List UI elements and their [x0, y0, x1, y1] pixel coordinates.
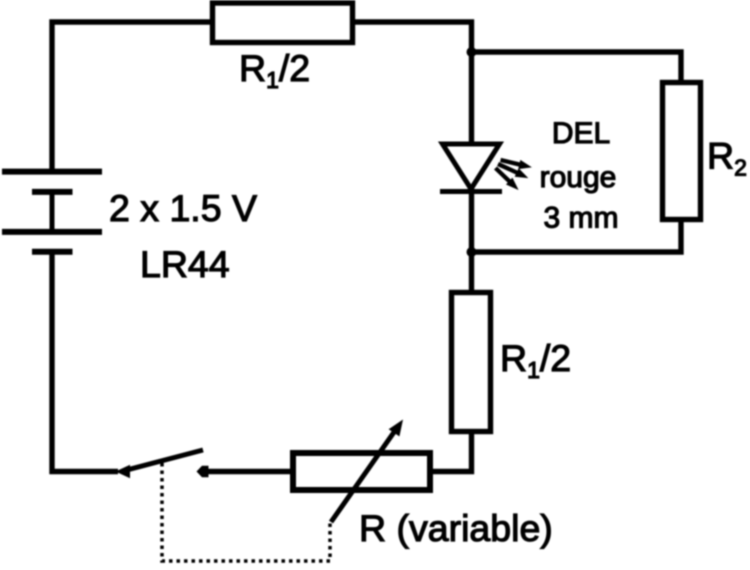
wire R2 bottom lead [472, 219, 682, 252]
wire bottom-left: battery down and across to switch [52, 254, 118, 472]
LED light arrow 2 [498, 164, 527, 178]
wire variable resistor to switch right contact [208, 469, 290, 474]
svg-text:R2: R2 [707, 135, 747, 181]
wire branch to R2 top [472, 52, 682, 83]
node B (junction bottom) [467, 247, 477, 257]
LED cathode bar [440, 189, 502, 194]
svg-text:R1/2: R1/2 [500, 337, 571, 383]
svg-text:R (variable): R (variable) [359, 507, 553, 549]
battery 2 x 1.5 V LR44 [2, 172, 102, 252]
resistor R2 (right, vertical box) [663, 83, 701, 220]
resistor R1/2 (top, horizontal box) [213, 3, 353, 43]
LED D1 (triangle) [443, 144, 500, 189]
arrow of variable resistor [331, 430, 396, 522]
wire LED cathode to R1/2 vertical [469, 188, 474, 292]
svg-text:LR44: LR44 [140, 243, 230, 285]
svg-text:3 mm: 3 mm [544, 202, 619, 235]
wire top-left: from battery up and across to R1/2 [52, 22, 210, 171]
svg-text:DEL: DEL [552, 117, 610, 150]
switch blade [125, 450, 203, 471]
wire R1/2 bottom lead to variable resistor [433, 434, 472, 472]
resistor R variable (box) [293, 453, 430, 490]
LED light arrow 3 [496, 168, 518, 189]
svg-text:rouge: rouge [540, 161, 617, 194]
wire top-right: R1/2 to corner, down to LED [355, 22, 472, 144]
LED light arrow 1 [501, 160, 531, 169]
node A (junction top) [467, 47, 477, 57]
resistor R1/2 (middle, vertical box) [452, 293, 491, 432]
switch right contact [197, 466, 209, 477]
switch S1 left contact arrowhead [116, 465, 131, 478]
dotted mechanical link [162, 463, 330, 561]
svg-text:R1/2: R1/2 [239, 47, 310, 93]
svg-text:2 x 1.5 V: 2 x 1.5 V [109, 187, 257, 229]
